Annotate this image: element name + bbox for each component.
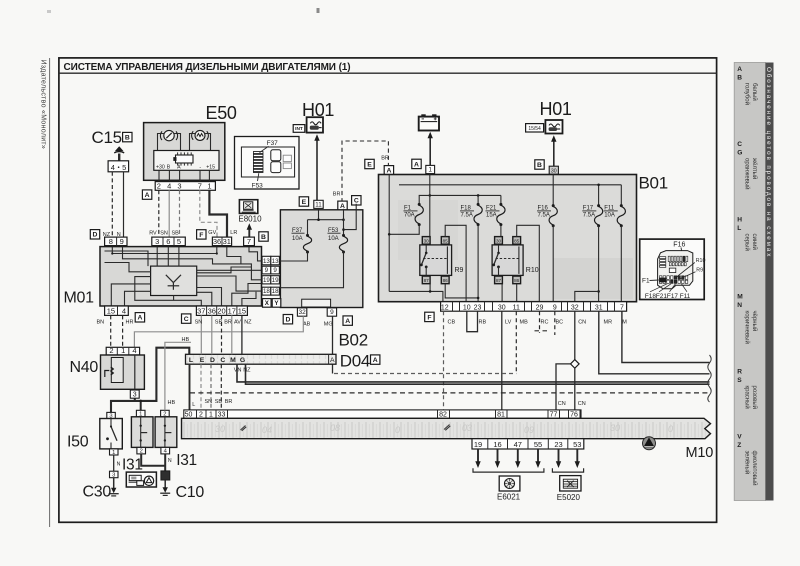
wire GV E50-7 to M01-36: [200, 190, 217, 237]
wire BR D04 to M10-33: [220, 364, 222, 410]
I50 pin 3 lower: [110, 471, 119, 478]
code box C above E-block: [352, 196, 361, 205]
fuse F37 10A in E-block: [307, 220, 309, 235]
svg-text:LV: LV: [505, 319, 512, 325]
fuse F21 15A: [500, 195, 502, 203]
svg-text:E: E: [200, 357, 205, 364]
svg-text:87: 87: [496, 278, 502, 283]
svg-text:9: 9: [265, 267, 269, 274]
H01 right icon box: [545, 120, 562, 134]
I31 left contact: [140, 417, 142, 426]
svg-text:0: 0: [395, 425, 400, 435]
svg-text:I50: I50: [67, 434, 89, 451]
svg-text:R9: R9: [696, 268, 703, 274]
svg-text:E8010: E8010: [238, 214, 262, 223]
wire to ground C30: [113, 478, 115, 489]
M01 bottom pin row 15 4: [105, 306, 129, 315]
sensor symbol C15: [114, 146, 124, 161]
svg-text:L: L: [737, 225, 741, 232]
wire colour legend strip: [734, 63, 765, 501]
svg-text:VN: VN: [234, 368, 242, 374]
svg-text:32: 32: [298, 309, 306, 316]
harness band M10: [182, 418, 711, 438]
fuse F16 7.5A: [552, 175, 554, 205]
switch I31 left body: [131, 417, 153, 448]
wire RV E50-2 to M01-3: [158, 190, 160, 237]
svg-text:29: 29: [536, 304, 544, 311]
svg-text:SB: SB: [215, 319, 223, 325]
stub to I31 left pin 1: [140, 401, 142, 410]
wire SN D04 to M10-2: [200, 364, 202, 410]
band faint watermarks: [215, 423, 673, 435]
legend H/L: [737, 217, 758, 251]
wire CB B01-12 to M10-82: [443, 311, 445, 410]
N40 pin 3: [130, 390, 139, 398]
gauge wiring in E50: [158, 134, 165, 151]
svg-text:B01: B01: [639, 174, 668, 193]
svg-text:10A: 10A: [328, 236, 339, 242]
code box D near M01 top: [90, 230, 99, 239]
battery symbol: [419, 114, 439, 130]
svg-text:11: 11: [315, 202, 322, 209]
svg-text:HB: HB: [168, 400, 176, 406]
F1 dark fuse: [659, 278, 666, 283]
wire N C15-5 to M01-9: [123, 172, 125, 237]
svg-text:RB: RB: [479, 319, 487, 325]
fuse element white pills: [271, 150, 281, 161]
dashed wire D04-A to B01-11 MB: [334, 373, 516, 375]
svg-text:7: 7: [198, 182, 202, 191]
wire F17 to pin 31: [598, 226, 600, 302]
pin box 11 of E-block: [314, 200, 323, 208]
svg-text:70A: 70A: [404, 213, 415, 219]
code box E above E-block pin 11: [299, 197, 308, 206]
svg-text:NZ: NZ: [244, 319, 252, 325]
wire R10-86 to pin 11: [516, 284, 518, 302]
title bar: [59, 72, 717, 74]
diagnostic unit E8010 icon: [239, 200, 257, 214]
code box C below M01: [182, 314, 191, 323]
switch I31 left pin 1: [136, 410, 145, 417]
svg-text:BC: BC: [556, 319, 564, 325]
svg-text:H: H: [737, 217, 742, 224]
code box B at C15: [123, 132, 132, 141]
svg-text:2: 2: [109, 346, 113, 355]
M01 internal wiring mesh: [105, 247, 262, 306]
svg-text:A: A: [177, 164, 181, 170]
svg-text:R10: R10: [526, 267, 539, 274]
svg-text:15: 15: [238, 307, 246, 316]
switch I31 right pin 2: [161, 410, 170, 417]
wire SB M01-36 to D04-D: [211, 315, 213, 354]
E-block pin 32: [297, 308, 306, 316]
svg-text:C: C: [220, 357, 225, 364]
svg-text:A: A: [145, 192, 150, 199]
heater unit E5020: [560, 476, 581, 491]
B01 inner bus upper: [399, 184, 621, 186]
svg-text:3: 3: [112, 473, 115, 479]
wire RC B01-29 stub: [539, 311, 541, 333]
svg-text:CN: CN: [558, 401, 566, 407]
M01 inner module: [151, 266, 197, 295]
svg-text:зелёный: зелёный: [743, 451, 750, 475]
stray scan mark top: [317, 8, 320, 13]
svg-text:F53: F53: [252, 183, 264, 190]
svg-text:СИСТЕМА УПРАВЛЕНИЯ ДИЗЕЛЬНЫМИ: СИСТЕМА УПРАВЛЕНИЯ ДИЗЕЛЬНЫМИ ДВИГАТЕЛЯМ…: [64, 62, 351, 73]
N40 internal wire: [134, 355, 136, 389]
svg-text:A: A: [414, 161, 419, 168]
wire B01-30 up to H01 right with arrow: [553, 140, 555, 166]
svg-text:Z: Z: [737, 442, 741, 449]
svg-text:NZ: NZ: [243, 368, 251, 374]
svg-text:оранжевый: оранжевый: [743, 158, 750, 190]
svg-text:86: 86: [514, 278, 520, 283]
relay R9: [420, 245, 452, 276]
svg-text:A: A: [737, 66, 742, 73]
N40 inner box: [111, 358, 123, 383]
fusebox lower rows with dark fuses: [659, 276, 662, 280]
wire F18 to pin 23: [477, 225, 479, 302]
switch I31 right body: [155, 417, 177, 448]
wire HB to I31 right pin 2: [165, 342, 191, 410]
E50 pin row 2 4 3 7 1: [155, 182, 215, 191]
svg-text:E: E: [367, 161, 372, 168]
svg-text:B: B: [737, 75, 742, 82]
svg-text:M10: M10: [686, 445, 714, 461]
legend V/Z: [737, 434, 758, 486]
M01 bottom pin row 37 36 20 17 15: [196, 306, 247, 315]
code box A right of D04: [371, 355, 380, 364]
svg-text:85: 85: [443, 238, 449, 243]
fusebox middle square: [669, 268, 676, 272]
svg-text:SN: SN: [195, 319, 203, 325]
wire NZ D04 to right edge: [246, 364, 710, 384]
dashed bus to right edge: [190, 392, 710, 394]
fuse location diagram F16 outer box: [640, 239, 705, 299]
code box A above B01 pin 1: [412, 159, 421, 168]
switch I31 left pin 2: [137, 447, 146, 454]
arrow M01-7 to E8010: [248, 228, 250, 237]
svg-text:CN: CN: [578, 319, 586, 325]
fusebox top fuse row: [668, 256, 670, 261]
svg-text:15A: 15A: [486, 213, 497, 219]
main diagram frame: [59, 58, 717, 522]
svg-text:R9: R9: [455, 267, 464, 274]
svg-text:GV: GV: [208, 230, 216, 236]
svg-text:0: 0: [668, 424, 673, 434]
svg-text:белый: белый: [751, 83, 758, 101]
svg-text:A: A: [137, 315, 142, 322]
N40 body: [101, 355, 145, 389]
svg-text:A: A: [373, 357, 378, 364]
svg-text:B: B: [261, 234, 266, 241]
svg-text:Обозначение цветов проводов на: Обозначение цветов проводов на схемах: [765, 67, 773, 258]
N40 pin row 2 1 4: [106, 347, 139, 355]
wire MR B01-31 to right edge: [599, 311, 710, 374]
svg-text:7.5A: 7.5A: [461, 213, 473, 219]
wire BR from A into F53: [343, 209, 345, 235]
svg-text:87: 87: [424, 278, 430, 283]
svg-text:A: A: [386, 168, 391, 175]
svg-text:M: M: [737, 294, 743, 301]
svg-text:47: 47: [514, 440, 522, 449]
wire SN M01-37 to D04-E: [200, 315, 202, 354]
fusebox second row: [669, 263, 671, 266]
code box Y: [272, 299, 281, 308]
wire BC B01-9 stub: [554, 311, 556, 335]
wire I31 right pin4 down: [164, 454, 166, 471]
svg-text:R10: R10: [696, 258, 706, 264]
svg-text:7.5A: 7.5A: [538, 213, 550, 219]
svg-text:09: 09: [524, 425, 534, 435]
svg-text:2: 2: [140, 449, 143, 455]
wire from E-block pin 11 up to H01 left with arrow: [316, 139, 318, 200]
svg-text:4: 4: [132, 346, 136, 355]
wire VN D04 to right edge: [237, 364, 710, 382]
svg-text:B: B: [537, 162, 542, 169]
wire R10-85 to pin 29: [517, 225, 540, 301]
svg-text:CN: CN: [578, 401, 586, 407]
svg-text:M: M: [622, 319, 627, 325]
code box B above B01 pin 30: [535, 160, 544, 169]
lower pin row 19 16 47 55 23 53: [472, 439, 584, 449]
wire NZ C15-4 to M01-8: [111, 172, 113, 237]
svg-text:3: 3: [133, 391, 137, 398]
wire BN M01-15 to N40-2: [110, 315, 112, 347]
code box A below M01: [135, 313, 144, 322]
fuse F17 7.5A: [598, 185, 600, 205]
svg-text:20: 20: [217, 307, 225, 316]
svg-text:23: 23: [554, 440, 562, 449]
svg-text:30: 30: [610, 423, 620, 433]
N40 valve glyph: [105, 367, 114, 377]
svg-text:A: A: [345, 318, 350, 325]
right edge break squiggle: [708, 355, 711, 402]
wire SB D04 to M10-1: [210, 364, 212, 410]
svg-text:BR: BR: [224, 319, 232, 325]
svg-text:15: 15: [107, 307, 115, 316]
svg-text:SB: SB: [172, 231, 180, 237]
I50 pin 3 top: [107, 412, 116, 418]
svg-text:N40: N40: [70, 359, 99, 376]
svg-text:MB: MB: [520, 319, 529, 325]
svg-text:C: C: [354, 198, 359, 205]
wire MB B01-11: [515, 311, 517, 373]
wire F1 out to A pin and pin 12: [389, 225, 419, 234]
svg-text:4: 4: [167, 182, 171, 191]
svg-text:31: 31: [223, 237, 231, 246]
connector strip D04: [186, 354, 337, 364]
svg-text:9: 9: [330, 309, 334, 316]
svg-text:1: 1: [121, 346, 125, 355]
wire BR M01-20 to D04-C: [221, 315, 223, 354]
fuse F18 7.5A: [477, 195, 479, 203]
svg-text:R: R: [737, 369, 742, 376]
svg-text:коричневый: коричневый: [743, 311, 750, 344]
code box D below E-block: [283, 315, 292, 324]
wire NZ M01-15 to D04-G: [241, 315, 243, 354]
svg-text:30: 30: [496, 238, 502, 243]
svg-text:15/54: 15/54: [528, 126, 541, 132]
svg-text:30: 30: [215, 424, 225, 434]
svg-text:L: L: [192, 402, 195, 408]
svg-text:SN: SN: [205, 399, 213, 405]
legend A/B: [737, 66, 758, 105]
svg-text:7: 7: [620, 304, 624, 311]
B01 feed pin1 to relay R9-30: [429, 175, 431, 237]
svg-text:31: 31: [595, 304, 603, 311]
svg-text:B: B: [167, 164, 171, 170]
code box X: [263, 299, 272, 308]
wire LR E50-1 to M01-31: [209, 190, 227, 237]
svg-text:19: 19: [263, 277, 270, 284]
wire F21 to relay R10-30: [500, 225, 502, 236]
svg-text:04: 04: [262, 425, 272, 435]
connector column M01 to E-block: [262, 256, 271, 265]
svg-text:30: 30: [424, 238, 430, 243]
svg-text:I31: I31: [176, 452, 197, 469]
svg-text:F: F: [199, 232, 203, 239]
svg-text:8: 8: [109, 237, 113, 246]
gauge icon 1 in E50: [160, 130, 177, 140]
bracket under 23-53: [552, 468, 583, 472]
svg-text:30: 30: [551, 168, 557, 174]
svg-text:36: 36: [208, 307, 216, 316]
wire F17 node to pin 32: [575, 291, 599, 301]
svg-text:L: L: [189, 357, 193, 364]
code box F below B01: [425, 312, 434, 321]
ground symbol C10: [163, 487, 168, 493]
svg-text:AV: AV: [234, 319, 241, 325]
wire MG E-block-9 to D04-A: [332, 316, 334, 373]
jumper RB B01-10 to B01-23: [467, 311, 478, 332]
svg-text:5: 5: [122, 163, 126, 172]
INT code box at H01: [293, 125, 305, 133]
wire pin10 to R9-85: [445, 225, 466, 301]
svg-text:F16: F16: [673, 242, 685, 249]
svg-text:INT: INT: [295, 126, 303, 132]
svg-text:BR: BR: [381, 155, 389, 161]
svg-text:V: V: [737, 434, 742, 441]
wire SN E50-4 to M01-6: [168, 190, 170, 237]
svg-text:M: M: [230, 357, 236, 364]
svg-text:+30: +30: [156, 164, 165, 170]
svg-text:BR: BR: [333, 192, 341, 198]
svg-text:5: 5: [177, 237, 181, 246]
svg-text:I31: I31: [122, 456, 143, 473]
code box F near M01-36: [197, 230, 206, 239]
svg-text:10: 10: [463, 304, 471, 311]
svg-text:10A: 10A: [604, 213, 615, 219]
svg-text:RV: RV: [149, 231, 157, 237]
svg-text:B: B: [125, 135, 130, 142]
svg-text:чёрный: чёрный: [751, 311, 758, 332]
svg-text:E6021: E6021: [497, 493, 521, 502]
fuse block hatched element: [253, 152, 263, 173]
svg-text:F1: F1: [642, 278, 650, 285]
wire LV B01-30 to M10-81: [501, 311, 503, 410]
wire N I50-1 down: [113, 455, 115, 471]
Monolit emblem on band: [643, 437, 656, 450]
svg-text:C10: C10: [176, 484, 205, 501]
svg-text:C30: C30: [83, 484, 112, 501]
gauge icon 2 in E50: [192, 130, 209, 140]
svg-text:N: N: [117, 462, 121, 468]
svg-text:розовый: розовый: [751, 386, 758, 409]
svg-text:E: E: [302, 199, 307, 206]
svg-text:HR: HR: [126, 319, 134, 325]
legend R/S: [737, 369, 758, 409]
svg-text:6: 6: [166, 237, 170, 246]
svg-text:BR: BR: [225, 399, 233, 405]
svg-text:7.5A: 7.5A: [583, 213, 595, 219]
wire L D04 to M10-50: [189, 364, 191, 410]
M01 body: [100, 247, 262, 306]
terminal box 15/54: [526, 124, 544, 132]
svg-text:23: 23: [474, 304, 482, 311]
fuse F1 70A: [419, 195, 430, 203]
I50 body: [100, 419, 123, 449]
svg-text:жёлтый: жёлтый: [751, 158, 758, 179]
svg-text:S: S: [737, 377, 742, 384]
code box A above E-block: [338, 201, 347, 210]
svg-text:55: 55: [534, 440, 542, 449]
fusebox left stripes: [660, 257, 666, 259]
fuse block E body: [280, 210, 362, 308]
pin box 30 on B01 top: [549, 166, 558, 174]
svg-text:SB: SB: [215, 399, 223, 405]
svg-text:E5020: E5020: [557, 493, 581, 502]
E50 connector strip: [154, 151, 219, 171]
M01 inner symbol: [166, 275, 181, 290]
cigarette lighter E6021: [499, 476, 520, 491]
wire N40-3 branch to I50-3: [111, 401, 135, 413]
svg-text:фиолетовый: фиолетовый: [751, 451, 758, 486]
fuse location diagram F37/F53 outer box: [235, 137, 300, 190]
svg-text:18: 18: [272, 288, 279, 295]
wire SB E50-3 to M01-5: [179, 190, 181, 237]
svg-text:B02: B02: [339, 331, 368, 350]
switch I31 right pin 4: [161, 447, 170, 454]
svg-text:D: D: [285, 317, 290, 324]
svg-text:36: 36: [213, 237, 221, 246]
svg-text:9: 9: [273, 267, 277, 274]
fuse/relay box B01 body: [379, 175, 637, 302]
svg-text:7: 7: [247, 237, 251, 246]
wire CN diamond to M10-76: [574, 368, 576, 410]
code box A below E50: [142, 190, 151, 199]
wire HR M01-4 to N40-1: [122, 315, 124, 347]
svg-text:C: C: [737, 141, 742, 148]
svg-text:3: 3: [177, 182, 181, 191]
E-block bottom tab: [302, 299, 331, 307]
wire CN B01-32 to junction diamond: [574, 311, 576, 360]
svg-text:53: 53: [573, 440, 581, 449]
svg-text:D: D: [93, 232, 98, 239]
wire R9-87 down: [429, 284, 431, 292]
relay R10: [492, 245, 523, 276]
svg-text:30: 30: [498, 304, 506, 311]
E-block feed from pin 11: [318, 208, 320, 219]
legend C/G: [737, 141, 758, 189]
svg-text:F: F: [427, 314, 431, 321]
harness M10 upper pin row: [184, 410, 581, 418]
H01 left icon box: [307, 117, 323, 132]
code box E floating: [365, 159, 374, 168]
page edge line: [49, 58, 51, 527]
svg-text:+15: +15: [206, 164, 215, 170]
fuse F11 10A: [620, 185, 622, 205]
